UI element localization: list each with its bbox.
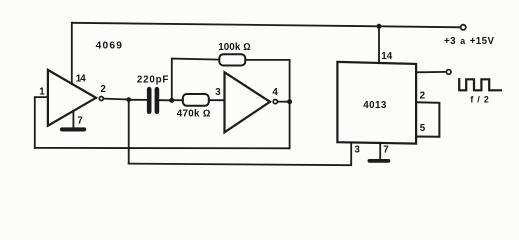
wire: U1B output (278, 101, 289, 103)
wire: U1A input pin 1 loop (35, 97, 48, 148)
terminal: +V supply (461, 25, 466, 30)
inverter U1B (4069 gate) (225, 72, 278, 132)
svg-text:4069: 4069 (96, 41, 123, 52)
ground: U2 4013 (369, 159, 388, 163)
resistor R1 100k (219, 54, 245, 65)
junction: node A (clock node) (126, 97, 131, 102)
symbol: square wave f/2 (459, 79, 501, 90)
svg-text:2: 2 (420, 90, 426, 101)
svg-text:14: 14 (76, 74, 86, 85)
svg-text:100k Ω: 100k Ω (218, 42, 251, 53)
terminal: f/2 output (446, 70, 451, 75)
wire: clock to 4013 pin 3 (129, 143, 352, 166)
svg-text:1: 1 (39, 87, 45, 98)
svg-text:14: 14 (381, 51, 392, 62)
svg-text:3: 3 (354, 144, 360, 155)
wire: feedback U1B output to U1A input (35, 147, 290, 149)
ground: U1A (62, 127, 84, 131)
wire: R1 right side down to U1B output node (245, 60, 289, 99)
junction: rail to 4013 pin 14 (377, 24, 382, 29)
junction: node B (cap / resistors) (169, 98, 174, 103)
wire: 4013 pin 7 (379, 143, 381, 159)
svg-text:220pF: 220pF (137, 75, 169, 86)
wire: node B up to R1 (172, 59, 220, 101)
svg-text:7: 7 (383, 144, 389, 155)
svg-text:2: 2 (100, 84, 106, 95)
wire: V+ top rail (72, 23, 460, 28)
junction: node C (U1B output) (287, 99, 292, 104)
svg-text:7: 7 (77, 116, 83, 127)
wire: U1A output (104, 98, 129, 101)
svg-text:+3a+15V: +3a+15V (444, 36, 495, 47)
svg-text:4: 4 (272, 87, 278, 98)
capacitor C1 220pF (129, 89, 172, 112)
resistor R2 470k (172, 94, 225, 106)
wire: U1A pin 7 (72, 111, 74, 129)
wire: 4069 pin 14 drop from rail to U1A (71, 23, 73, 84)
wire: 4013 pin 14 (378, 26, 380, 63)
IC U2 4013 (337, 62, 416, 144)
wire: node A down (128, 100, 130, 164)
svg-text:5: 5 (420, 123, 426, 134)
wire: node C down to feedback wire (289, 102, 291, 149)
svg-text:f / 2: f / 2 (470, 94, 489, 104)
svg-text:470k Ω: 470k Ω (177, 109, 211, 120)
inverter U1A (4069 gate) (48, 70, 103, 126)
svg-text:4013: 4013 (363, 100, 387, 111)
wire: 4013 pin 2 to pin 5 loop (416, 102, 439, 136)
svg-text:3: 3 (215, 87, 221, 98)
wire: 4013 output to terminal (416, 71, 446, 73)
